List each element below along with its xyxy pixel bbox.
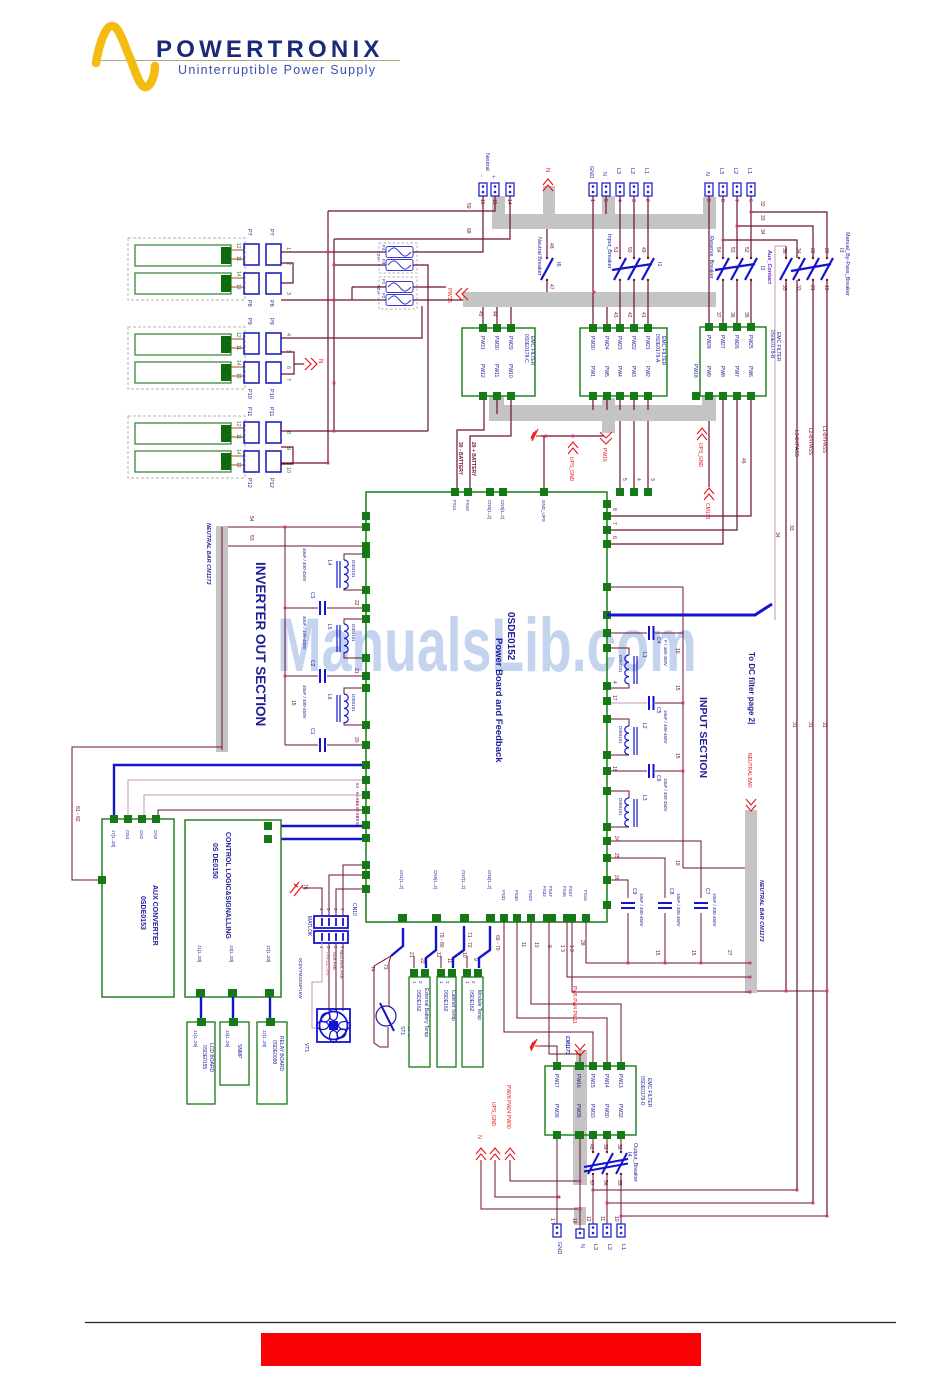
battery pack 1 dashed enclosure xyxy=(128,238,245,300)
svg-text:FS47: FS47 xyxy=(548,886,553,897)
svg-text:PW16: PW16 xyxy=(601,448,607,462)
svg-text:12: 12 xyxy=(235,421,241,427)
svg-text:PW21: PW21 xyxy=(644,336,650,350)
connector N 9 xyxy=(705,183,713,196)
svg-text:L1: L1 xyxy=(643,168,649,174)
temp sensor blue wires xyxy=(426,926,436,968)
footer rule xyxy=(85,1322,896,1324)
gray bar above EMC-D xyxy=(576,1050,587,1066)
inductor L4 xyxy=(337,560,348,589)
svg-text:GND: GND xyxy=(588,166,594,178)
battery cell 2a xyxy=(135,334,231,355)
fan VT1 xyxy=(317,1009,350,1042)
L2 reserve drop xyxy=(736,196,738,258)
svg-text:Neutral Breaker: Neutral Breaker xyxy=(536,237,542,276)
wire 26 to C9 xyxy=(611,880,628,898)
svg-text:0SDE0153: 0SDE0153 xyxy=(139,896,146,930)
EMC filter 0SDE0178-C xyxy=(462,328,535,396)
svg-text:1 3: 1 3 xyxy=(559,945,565,952)
svg-text:6: 6 xyxy=(285,366,291,369)
external battery temp board xyxy=(409,977,430,1067)
svg-text:C5: C5 xyxy=(655,707,661,714)
bypass return wires xyxy=(593,1190,827,1216)
svg-text:3: 3 xyxy=(630,199,636,202)
svg-text:32: 32 xyxy=(759,201,765,207)
battery pack 2 dashed enclosure xyxy=(128,327,245,389)
wire to neutral plus xyxy=(328,196,495,211)
svg-text:31: 31 xyxy=(821,722,827,728)
svg-text:PW28 PW24 PW30: PW28 PW24 PW30 xyxy=(505,1085,511,1129)
cabinet temp board xyxy=(437,977,456,1067)
EMC-A bottom stubs into bus3 xyxy=(592,400,594,410)
svg-text:PHASE FAN: PHASE FAN xyxy=(325,952,330,976)
fuse F2 xyxy=(386,295,413,306)
svg-text:25: 25 xyxy=(613,853,619,859)
svg-text:L2: L2 xyxy=(629,168,635,174)
EMC-B to board staircase 3 xyxy=(611,400,723,544)
fuse F3 wires xyxy=(334,264,386,266)
svg-text:FS30: FS30 xyxy=(514,890,519,901)
svg-text:76: 76 xyxy=(302,884,308,890)
svg-text:CN9[1..2]: CN9[1..2] xyxy=(433,870,438,889)
svg-text:ST1: ST1 xyxy=(399,1026,405,1035)
connector P8 column xyxy=(244,273,259,294)
pack1 series jog xyxy=(281,263,293,283)
temp wire labels xyxy=(408,932,478,964)
board bottom pin labels xyxy=(399,870,588,901)
capacitor C5 row xyxy=(611,702,647,704)
svg-text:CN2: CN2 xyxy=(139,830,144,839)
board left pins xyxy=(362,512,370,893)
board bottom pins xyxy=(398,914,590,922)
red N arrow battery xyxy=(305,358,317,370)
svg-text:9: 9 xyxy=(705,199,711,202)
bypass labels xyxy=(793,426,827,458)
connector P9 column xyxy=(244,333,259,354)
svg-text:57: 57 xyxy=(588,1180,594,1186)
svg-text:PW11: PW11 xyxy=(493,364,499,377)
svg-text:N: N xyxy=(317,359,323,363)
svg-text:CN6[1..2]: CN6[1..2] xyxy=(487,870,492,889)
svg-text:13: 13 xyxy=(235,284,241,290)
svg-text:22: 22 xyxy=(419,958,425,964)
svg-text:10: 10 xyxy=(285,467,291,473)
svg-text:47: 47 xyxy=(548,284,554,290)
red PW16 label xyxy=(600,432,612,444)
wire route to AUX left pin xyxy=(72,747,222,880)
battery cell 3a xyxy=(135,423,231,444)
red PW35 label xyxy=(456,288,468,300)
bus stub to N arrow xyxy=(543,186,555,216)
bypass tap L1 xyxy=(751,212,827,258)
aux converter board xyxy=(102,819,174,997)
red CM173 label xyxy=(704,488,714,500)
svg-text:10: 10 xyxy=(461,952,467,958)
svg-text:2: 2 xyxy=(644,199,650,202)
blue wires control to board xyxy=(272,825,362,827)
control top right pins xyxy=(264,822,272,830)
svg-text:81 - 82: 81 - 82 xyxy=(74,806,80,822)
svg-text:37: 37 xyxy=(715,312,721,318)
svg-text:RELAY BOARD: RELAY BOARD xyxy=(278,1036,284,1071)
battery terminal numbers xyxy=(235,243,241,468)
svg-text:12: 12 xyxy=(435,952,441,958)
svg-text:CN3: CN3 xyxy=(153,830,158,839)
connector L3 4 xyxy=(616,183,624,196)
svg-text:CM173: CM173 xyxy=(704,503,710,519)
svg-text:54: 54 xyxy=(248,516,254,522)
wires bus3 to board top pins xyxy=(619,421,621,488)
svg-text:P9: P9 xyxy=(246,318,252,325)
svg-text:F1: F1 xyxy=(381,279,386,285)
connector minus 16 xyxy=(479,183,487,196)
bus bar 3 stub up to EMC-C xyxy=(489,396,504,408)
svg-text:15: 15 xyxy=(674,753,680,759)
svg-text:CN4: CN4 xyxy=(125,830,130,839)
battery pack3 wire pin8 xyxy=(281,430,428,432)
svg-text:79 - 80: 79 - 80 xyxy=(438,932,444,948)
fuse F3 xyxy=(386,260,413,271)
svg-text:36: 36 xyxy=(781,248,787,254)
svg-text:39: 39 xyxy=(602,1144,608,1150)
svg-text:15: 15 xyxy=(654,950,660,956)
svg-text:DSM191: DSM191 xyxy=(618,655,623,673)
svg-text:PW36: PW36 xyxy=(553,1104,559,1118)
svg-text:CN7[1..2]: CN7[1..2] xyxy=(461,870,466,889)
svg-text:PW14: PW14 xyxy=(603,1074,609,1088)
svg-text:33: 33 xyxy=(788,525,794,531)
svg-text:PW27: PW27 xyxy=(719,335,725,349)
svg-text:35: 35 xyxy=(781,285,787,291)
svg-text:21: 21 xyxy=(809,285,815,291)
svg-text:PW26: PW26 xyxy=(733,335,739,349)
EMC-B to board staircase 2 xyxy=(611,400,737,530)
svg-text:C4: C4 xyxy=(655,637,661,644)
bus stub to neutral connectors xyxy=(492,196,505,216)
svg-text:N: N xyxy=(601,172,607,176)
svg-text:J2[1..26]: J2[1..26] xyxy=(262,1030,267,1047)
svg-text:54: 54 xyxy=(715,247,721,253)
capacitor C9 xyxy=(621,903,635,908)
connector L2 7 xyxy=(733,183,741,196)
control bottom pins xyxy=(196,989,274,997)
svg-text:FS32: FS32 xyxy=(542,886,547,897)
svg-text:+: + xyxy=(490,175,496,178)
svg-text:PW30: PW30 xyxy=(603,1104,609,1118)
connector L1 2 xyxy=(644,183,652,196)
battery cell 1b xyxy=(135,273,231,294)
wire pin 587 xyxy=(611,586,683,588)
ground symbol UPS top xyxy=(531,429,541,441)
aux pole stub xyxy=(785,246,787,258)
connector plus 15 xyxy=(491,183,499,196)
neutral bar right xyxy=(745,810,757,993)
svg-text:F / 400-450V: F / 400-450V xyxy=(663,640,668,666)
board top pins xyxy=(451,488,652,496)
inverter rail xyxy=(284,527,286,745)
bus bar 3 stub up to EMC-A xyxy=(602,398,615,406)
top connector labels xyxy=(478,153,752,178)
svg-text:40uF / 400-450V: 40uF / 400-450V xyxy=(302,616,307,650)
pink wire 61-62-63 xyxy=(144,795,362,815)
bar to bypass wire xyxy=(757,990,827,992)
svg-text:P11: P11 xyxy=(268,407,274,416)
svg-text:21: 21 xyxy=(353,668,359,674)
svg-text:DSM191: DSM191 xyxy=(351,560,356,578)
power board outline xyxy=(366,492,607,922)
svg-text:L3: L3 xyxy=(592,1244,598,1250)
svg-text:6: 6 xyxy=(747,199,753,202)
svg-text:L2-BYPASS: L2-BYPASS xyxy=(807,428,813,456)
red UPS_GND right label xyxy=(697,428,707,440)
svg-text:PW25: PW25 xyxy=(747,335,753,349)
LCD board xyxy=(187,1022,215,1104)
EMC-C feed stubs xyxy=(482,307,484,325)
svg-text:CN5[1..2]: CN5[1..2] xyxy=(487,500,492,519)
svg-text:FS46: FS46 xyxy=(562,886,567,897)
svg-text:EMC FILTER: EMC FILTER xyxy=(646,1078,652,1108)
board top pin labels xyxy=(452,500,546,522)
svg-text:11: 11 xyxy=(520,942,526,947)
connector P11 column xyxy=(244,422,259,443)
svg-text:41: 41 xyxy=(640,312,646,318)
svg-text:PW12: PW12 xyxy=(479,364,485,378)
svg-text:To DC filter page 2|: To DC filter page 2| xyxy=(747,652,756,724)
svg-text:40uF / 400-450V: 40uF / 400-450V xyxy=(302,548,307,582)
svg-text:49: 49 xyxy=(640,247,646,253)
svg-text:21: 21 xyxy=(408,952,414,958)
svg-text:I3: I3 xyxy=(838,248,844,253)
svg-text:4: 4 xyxy=(616,199,622,202)
bus stub to N reserve connector xyxy=(703,197,716,216)
svg-text:10: 10 xyxy=(533,942,539,948)
L2 input drop xyxy=(633,196,635,258)
svg-text:4: 4 xyxy=(635,478,641,481)
svg-text:I4: I4 xyxy=(626,1152,632,1157)
svg-text:PW13: PW13 xyxy=(617,1074,623,1088)
blue wire to AUX xyxy=(114,765,362,815)
svg-text:FS16: FS16 xyxy=(583,890,588,901)
svg-text:Output_Breaker: Output_Breaker xyxy=(632,1143,638,1182)
svg-text:AUX FAN: AUX FAN xyxy=(332,952,337,970)
svg-text:3: 3 xyxy=(285,292,291,295)
svg-text:40uF / 400-450V: 40uF / 400-450V xyxy=(302,685,307,719)
svg-text:0S0E0178-B: 0S0E0178-B xyxy=(769,330,775,359)
svg-text:51: 51 xyxy=(612,247,618,253)
svg-text:J7[1..20]: J7[1..20] xyxy=(111,830,116,847)
svg-text:P11: P11 xyxy=(246,407,252,416)
svg-text:J2[1..20]: J2[1..20] xyxy=(266,945,271,962)
wire F2 to pin4 xyxy=(281,306,422,338)
svg-text:42: 42 xyxy=(626,312,632,318)
pink wire 64-65-66 xyxy=(128,780,362,815)
bypass tap L3 xyxy=(723,240,797,258)
logo underline xyxy=(96,60,400,62)
svg-text:6: 6 xyxy=(611,536,617,539)
fuse group F4 F3 dashed box xyxy=(379,243,417,273)
svg-text:14: 14 xyxy=(506,199,512,205)
battery terminal stub wires xyxy=(231,250,244,465)
svg-text:L1-BYPASS: L1-BYPASS xyxy=(821,426,827,454)
svg-text:34: 34 xyxy=(795,248,801,254)
svg-text:VT1: VT1 xyxy=(303,1043,309,1052)
svg-text:PW6: PW6 xyxy=(747,366,753,377)
svg-text:P8: P8 xyxy=(246,300,252,307)
ground to PW17 xyxy=(540,1046,557,1062)
svg-text:L2: L2 xyxy=(732,168,738,174)
svg-text:UPS_GND: UPS_GND xyxy=(568,457,574,482)
connector P10 column xyxy=(244,362,259,383)
connector P7 column A xyxy=(244,244,281,472)
svg-text:N: N xyxy=(704,172,710,176)
aux top pins xyxy=(110,815,160,823)
svg-text:1 7: 1 7 xyxy=(549,1218,555,1225)
svg-text:Aux_Contact: Aux_Contact xyxy=(766,249,772,285)
svg-text:0SDE0152: 0SDE0152 xyxy=(505,612,516,661)
svg-text:43: 43 xyxy=(612,312,618,318)
svg-text:J1[1..20]: J1[1..20] xyxy=(197,945,202,962)
svg-text:MATLOK: MATLOK xyxy=(306,916,312,937)
svg-text:35: 35 xyxy=(743,312,749,318)
svg-text:1 2: 1 2 xyxy=(568,945,574,952)
N input drop xyxy=(605,196,607,214)
svg-text:0S0E0178-A: 0S0E0178-A xyxy=(654,334,660,363)
red N output label xyxy=(476,1148,486,1160)
svg-text:0SDE0178-D: 0SDE0178-D xyxy=(639,1076,645,1106)
FS fan-out wires xyxy=(504,922,621,1062)
svg-text:74: 74 xyxy=(369,966,375,972)
svg-text:DSM191: DSM191 xyxy=(618,798,623,816)
svg-text:NEUTRAL BAR CM1173: NEUTRAL BAR CM1173 xyxy=(758,880,764,942)
svg-text:69 - 70: 69 - 70 xyxy=(494,935,500,951)
svg-text:NEUTRAL BAR: NEUTRAL BAR xyxy=(746,753,752,788)
svg-text:14: 14 xyxy=(235,271,241,277)
svg-text:4: 4 xyxy=(285,333,291,336)
svg-text:C9: C9 xyxy=(631,888,637,895)
svg-text:PW5: PW5 xyxy=(603,366,609,377)
svg-text:Module Temp: Module Temp xyxy=(476,990,482,1020)
svg-text:INPUT SECTION: INPUT SECTION xyxy=(697,697,709,778)
svg-text:L1: L1 xyxy=(746,168,752,174)
connector L3 8 xyxy=(719,183,727,196)
svg-text:18: 18 xyxy=(611,766,617,772)
battery cell 1a xyxy=(135,245,231,266)
svg-text:33: 33 xyxy=(795,285,801,291)
fan feed wires xyxy=(329,943,343,1011)
CM173 drop xyxy=(708,421,710,487)
svg-text:22: 22 xyxy=(353,600,359,606)
svg-text:P7: P7 xyxy=(246,229,252,236)
svg-text:40: 40 xyxy=(588,1144,594,1150)
capacitor C4 row xyxy=(611,632,647,634)
svg-text:CONTROL LOGIC&SIGNALLING: CONTROL LOGIC&SIGNALLING xyxy=(224,832,231,939)
bus bar 3 stub down PW16 xyxy=(602,421,615,433)
svg-text:Neutral: Neutral xyxy=(484,153,490,171)
svg-text:9: 9 xyxy=(472,958,478,961)
svg-text:13: 13 xyxy=(235,373,241,379)
svg-text:29 + BATTERY: 29 + BATTERY xyxy=(470,442,476,477)
svg-text:PW22: PW22 xyxy=(630,336,636,350)
connector L1 6 xyxy=(747,183,755,196)
bypass long vertical L3 xyxy=(796,280,798,1190)
svg-text:P10: P10 xyxy=(246,389,252,399)
aux pole bottom vertical xyxy=(785,280,787,991)
blue DC bus wire xyxy=(607,604,772,615)
svg-text:PW29: PW29 xyxy=(507,336,513,350)
L3 input drop xyxy=(619,196,621,258)
capacitor C8 xyxy=(658,903,672,908)
svg-text:44: 44 xyxy=(491,311,497,317)
svg-text:10uF / 400-450V: 10uF / 400-450V xyxy=(639,893,644,927)
top connector pin numbers xyxy=(479,199,753,205)
svg-text:C3: C3 xyxy=(309,592,315,599)
svg-text:EMC FILTER: EMC FILTER xyxy=(660,336,666,366)
EMC filter 0SDE0178-A xyxy=(580,328,667,396)
battery cell 3b xyxy=(135,451,231,472)
svg-text:45: 45 xyxy=(477,311,483,317)
svg-text:5: 5 xyxy=(621,478,627,481)
svg-text:EMC FILTER: EMC FILTER xyxy=(775,332,781,362)
svg-text:15: 15 xyxy=(690,950,696,956)
svg-text:PW2: PW2 xyxy=(644,366,650,377)
svg-text:0SDE0155: 0SDE0155 xyxy=(201,1045,207,1069)
svg-text:PW7: PW7 xyxy=(733,366,739,377)
FS46 FS37 wires to bar xyxy=(567,922,750,977)
thermostat ST1 xyxy=(391,928,403,956)
svg-text:10uF / 400-450V: 10uF / 400-450V xyxy=(712,893,717,927)
svg-text:0SDE0098: 0SDE0098 xyxy=(271,1040,277,1064)
board right pins xyxy=(603,500,611,909)
relay board xyxy=(257,1022,287,1104)
svg-text:46: 46 xyxy=(740,458,746,464)
connector P12 column xyxy=(244,451,259,472)
svg-text:17: 17 xyxy=(611,695,617,701)
wire bar to pin 546 xyxy=(228,545,362,547)
neutral bar inner wire xyxy=(221,527,223,750)
input breaker I1 xyxy=(612,258,654,280)
rail to bar xyxy=(683,867,745,869)
svg-text:53: 53 xyxy=(248,535,254,541)
svg-text:CN1[1..2]: CN1[1..2] xyxy=(399,870,404,889)
EMC-C PW11 stub xyxy=(496,400,498,414)
svg-text:PW4: PW4 xyxy=(616,366,622,377)
connector L2 3 xyxy=(630,183,638,196)
svg-text:P12: P12 xyxy=(246,478,252,488)
red UPS_GND output label xyxy=(490,1148,500,1160)
bus stub to N input connector xyxy=(602,196,615,216)
red tap symbol xyxy=(290,882,303,896)
svg-text:N: N xyxy=(476,1135,482,1139)
svg-text:L3-BYPASS: L3-BYPASS xyxy=(793,430,799,458)
output connectors xyxy=(553,1224,625,1238)
fuse labels xyxy=(376,245,386,299)
svg-text:16: 16 xyxy=(674,648,680,654)
svg-text:GND: GND xyxy=(556,1242,562,1254)
svg-text:I2: I2 xyxy=(759,266,765,271)
svg-text:PW33: PW33 xyxy=(589,1104,595,1118)
pin numbers 5 4 3 xyxy=(611,478,827,728)
capacitor C2 row xyxy=(285,675,318,677)
svg-text:20: 20 xyxy=(823,248,829,254)
svg-text:55: 55 xyxy=(616,1180,622,1186)
svg-text:34: 34 xyxy=(774,532,780,538)
connector GND 1 xyxy=(589,183,597,196)
svg-text:Input_Breaker: Input_Breaker xyxy=(606,234,612,269)
fuse F2 wires xyxy=(281,299,386,301)
wire number labels top xyxy=(457,201,829,477)
svg-text:P8: P8 xyxy=(268,300,274,307)
svg-text:L3: L3 xyxy=(718,168,724,174)
